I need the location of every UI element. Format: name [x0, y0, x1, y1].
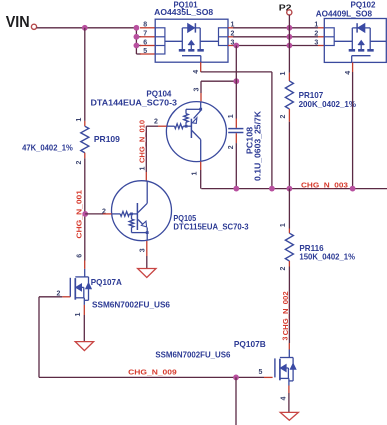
svg-text:SSM6N7002FU_US6: SSM6N7002FU_US6: [92, 300, 170, 309]
svg-text:1: 1: [75, 312, 82, 316]
junction emitter branch / PC108 line: [233, 78, 239, 84]
svg-text:5: 5: [259, 369, 263, 376]
wire PQ104 emitter branch: [193, 81, 236, 101]
junction rail / PC108: [233, 186, 239, 192]
wire net CHG_N_009: [39, 297, 273, 378]
wire source row 3: [228, 45, 324, 47]
wire PQ105 emitter to ground: [140, 241, 147, 269]
resistor PR109 47K_0402_1%: [22, 118, 120, 165]
connector P2: [279, 2, 292, 15]
transistor PQ107A SSM6N7002FU_US6: [57, 269, 171, 317]
svg-text:1: 1: [314, 22, 318, 29]
transistor PQ105 DTC115EUA_SC70-3: [102, 181, 249, 241]
svg-text:PR107: PR107: [299, 91, 324, 100]
junction rail / PR107-PR116: [287, 186, 293, 192]
svg-text:2: 2: [76, 160, 83, 164]
junction CHG_N_009 / bottom stub: [233, 375, 239, 381]
svg-text:2: 2: [280, 114, 287, 118]
junction VIN / PR109: [82, 25, 88, 31]
svg-text:DTA144EUA_SC70-3: DTA144EUA_SC70-3: [91, 98, 178, 107]
svg-text:CHG_N_010: CHG_N_010: [138, 120, 147, 163]
svg-text:DTC115EUA_SC70-3: DTC115EUA_SC70-3: [173, 223, 249, 232]
junction row3 / P2: [287, 43, 293, 49]
svg-text:2: 2: [154, 119, 158, 126]
wire CHG_N_001 to PQ107A drain: [77, 252, 85, 269]
resistor PR116 150K_0402_1%: [280, 189, 355, 271]
transistor PQ102 AO4409L SO8: [314, 1, 386, 75]
wire PQ105 base: [85, 213, 111, 215]
svg-text:CHG_N_001: CHG_N_001: [74, 190, 83, 239]
svg-text:CHG_N_009: CHG_N_009: [128, 368, 177, 377]
svg-text:5: 5: [143, 48, 147, 55]
wire PR107 to CHG_N_003: [288, 122, 290, 189]
svg-text:3: 3: [283, 336, 290, 340]
junction bus pin8: [134, 25, 140, 31]
wire to bottom edge: [235, 377, 237, 425]
svg-text:7: 7: [143, 31, 147, 38]
terminal VIN circle: [31, 24, 36, 29]
wire VIN horizontal: [37, 27, 137, 29]
svg-text:AO4435L_SO8: AO4435L_SO8: [154, 8, 213, 17]
junction row3 / PC108 branch: [233, 43, 239, 49]
svg-text:4: 4: [193, 70, 200, 74]
svg-text:1: 1: [76, 118, 83, 122]
wire pin3 row down to PC108: [235, 46, 237, 119]
svg-text:200K_0402_1%: 200K_0402_1%: [299, 100, 357, 109]
svg-text:150K_0402_1%: 150K_0402_1%: [299, 253, 355, 262]
svg-text:PQ102: PQ102: [351, 1, 376, 10]
wire PQ107B source to ground: [288, 386, 290, 413]
svg-text:8: 8: [143, 22, 147, 29]
junction bus pin7: [134, 34, 140, 40]
svg-text:6: 6: [143, 39, 147, 46]
transistor PQ107B SSM6N7002FU_US6: [155, 340, 296, 401]
svg-text:1: 1: [140, 166, 147, 170]
ground PQ105: [138, 269, 156, 278]
wire PQ101 gate run: [201, 72, 272, 189]
svg-text:VIN: VIN: [6, 14, 30, 31]
wire VIN to PR109: [84, 28, 86, 121]
wire source row 1: [228, 27, 324, 29]
svg-text:3: 3: [314, 39, 318, 46]
transistor PQ104 DTA144EUA_SC70-3: [91, 90, 227, 162]
wire PQ107A source to ground: [83, 305, 85, 342]
svg-text:CHG_N_002: CHG_N_002: [281, 291, 290, 335]
junction row2 / P2: [287, 34, 293, 40]
wire net CHG_N_002: [281, 267, 290, 344]
svg-text:2: 2: [228, 145, 235, 149]
svg-text:SSM6N7002FU_US6: SSM6N7002FU_US6: [155, 351, 230, 360]
wire net CHG_N_003 rail: [201, 180, 387, 189]
wire PQ104 collector to rail: [192, 162, 201, 189]
svg-text:PQ107B: PQ107B: [234, 340, 266, 349]
svg-text:6: 6: [77, 254, 84, 258]
ground PQ107A: [75, 342, 93, 351]
svg-text:PR116: PR116: [299, 244, 324, 253]
junction bus pin6: [134, 43, 140, 49]
junction row1 / P2: [287, 25, 293, 31]
wire P2 down to PR107: [288, 15, 290, 73]
svg-text:2: 2: [314, 31, 318, 38]
resistor PR107 200K_0402_1%: [280, 71, 356, 121]
net label VIN: [6, 14, 30, 31]
wire PQ102 gate to CHG_N_003: [352, 72, 354, 189]
svg-text:PR109: PR109: [94, 135, 120, 144]
svg-text:PQ107A: PQ107A: [91, 278, 122, 287]
svg-text:2: 2: [280, 266, 287, 270]
junction rail / PQ101 gate: [269, 186, 275, 192]
capacitor PC108 0.1U_0603_25/7K: [228, 111, 262, 181]
svg-text:47K_0402_1%: 47K_0402_1%: [22, 144, 73, 153]
svg-text:1: 1: [228, 114, 235, 118]
wire net CHG_N_001: [74, 158, 84, 252]
svg-text:1: 1: [280, 71, 287, 75]
junction CHG_N_001 / PQ105 base: [82, 211, 88, 217]
transistor PQ101 AO4435L SO8: [143, 0, 234, 73]
svg-text:CHG_N_003: CHG_N_003: [301, 180, 348, 189]
svg-text:4: 4: [345, 71, 352, 75]
svg-text:3: 3: [193, 87, 200, 91]
junction rail / PQ102 gate: [350, 186, 356, 192]
svg-text:1: 1: [280, 223, 287, 227]
wire VIN bus to PQ101 drain pins: [136, 28, 155, 54]
svg-text:P2: P2: [279, 2, 292, 12]
svg-text:0.1U_0603_25/7K: 0.1U_0603_25/7K: [254, 111, 263, 181]
wire net CHG_N_010 (PQ104 base to PQ105 collector): [138, 120, 167, 181]
wire source row 2: [228, 36, 324, 38]
ground PQ107B: [280, 412, 298, 420]
svg-text:3: 3: [140, 248, 147, 252]
svg-text:PQ105: PQ105: [173, 214, 196, 223]
wire PC108 to CHG_N_003: [235, 143, 237, 189]
svg-text:1: 1: [192, 171, 199, 175]
svg-text:PQ104: PQ104: [146, 90, 171, 99]
svg-text:4: 4: [281, 396, 288, 400]
svg-text:AO4409L_SO8: AO4409L_SO8: [316, 10, 373, 19]
